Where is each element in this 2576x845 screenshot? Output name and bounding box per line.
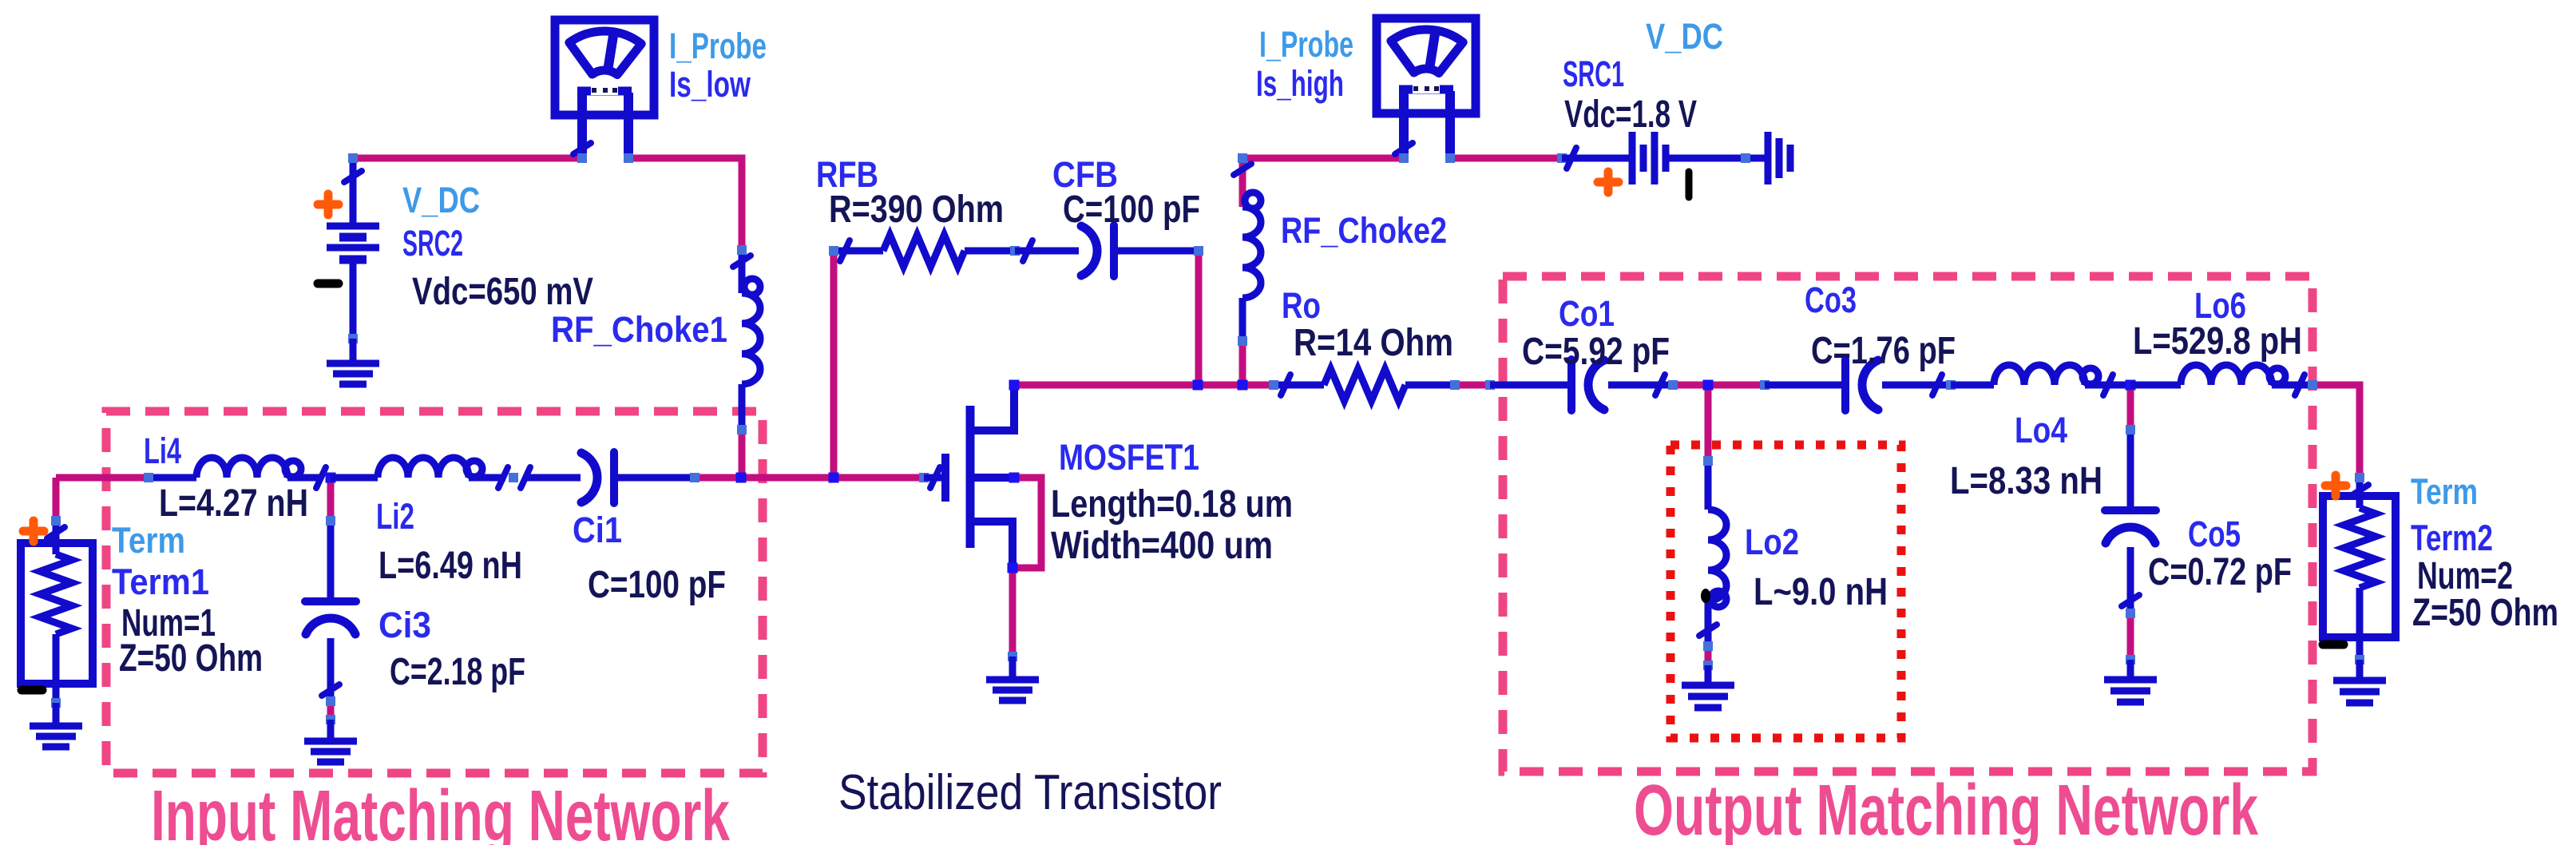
current probe meter Is_high [1377, 18, 1476, 113]
wire: input stub Term1 to Li4 [56, 474, 149, 482]
pin tick Li2 right a [498, 467, 508, 488]
svg-text:C=100 pF: C=100 pF [588, 564, 726, 606]
node at SRC2 bottom [348, 334, 358, 343]
svg-text:SRC1: SRC1 [1563, 54, 1624, 94]
node at Lo2 ground [1703, 661, 1713, 670]
pin tick RF_Choke2 top [1234, 164, 1251, 175]
wire: MOSFET source down to ground [1009, 568, 1017, 657]
wire: gate rail Ci1 to MOSFET gate [695, 474, 924, 482]
svg-text:C=100 pF: C=100 pF [1063, 188, 1200, 231]
pin tick RFB left [840, 240, 850, 261]
node at Ci3 ground [326, 715, 335, 724]
node at Lo2 bottom [1703, 641, 1713, 651]
I_Probe Is_low legs [577, 93, 587, 158]
svg-text:Stabilized Transistor: Stabilized Transistor [838, 765, 1222, 820]
wire: MOSFET bulk to source tie [1013, 478, 1041, 568]
node at RF_Choke2 corner [1238, 153, 1247, 163]
capacitor Co1 [1490, 382, 1571, 389]
pin tick Is_high left leg [1395, 143, 1413, 154]
ground below Ci3 [304, 738, 357, 745]
node at output box exit [2308, 380, 2317, 390]
node after Co1 [1668, 380, 1678, 390]
svg-text:Is_high: Is_high [1256, 63, 1344, 104]
svg-text:Term: Term [2411, 471, 2478, 512]
junction node RF_Choke1/gate rail [736, 473, 747, 483]
svg-text:V_DC: V_DC [402, 180, 480, 220]
wire: Li2 to Ci1 [525, 474, 581, 482]
ground below Lo2 [1682, 682, 1734, 689]
pin tick CFB left [1023, 240, 1032, 261]
junction node RF_Choke2/drain rail [1238, 380, 1248, 391]
wire: Ci3 bottom to ground node [327, 701, 335, 720]
dotted red box around Lo2 [1670, 445, 1901, 738]
node at Co5 ground [2126, 655, 2135, 664]
svg-text:Is_low: Is_low [669, 64, 751, 105]
wire: Lo2 bottom to ground node [1705, 646, 1712, 665]
node at Ci3 bottom [326, 696, 335, 706]
node at Co5 top [2126, 425, 2135, 434]
pin tick Li2 right b [521, 467, 530, 488]
svg-text:Vdc=650 mV: Vdc=650 mV [412, 271, 593, 313]
svg-text:Z=50 Ohm: Z=50 Ohm [2412, 592, 2558, 634]
wire: Li4/Li2 junction down to Ci3 [327, 478, 335, 521]
svg-text:R=390 Ohm: R=390 Ohm [829, 188, 1004, 231]
node at RF_Choke1 bottom [737, 425, 747, 434]
junction node RFB/gate rail [829, 473, 839, 483]
node before Co3 [1760, 380, 1770, 390]
node at Is_high right leg [1445, 153, 1455, 163]
capacitor Co3 [1765, 382, 1845, 389]
svg-text:Co1: Co1 [1559, 293, 1615, 334]
I_Probe Is_high legs [1399, 91, 1409, 158]
ground below Co5 [2104, 676, 2157, 684]
resistor RFB [834, 248, 883, 255]
svg-text:Ro: Ro [1282, 285, 1321, 326]
pin tick Term1 [47, 527, 65, 538]
minus sign Term2 [2323, 641, 2344, 649]
ground below Term2 [2333, 677, 2386, 684]
junction node Li4/Li2/Ci3 [326, 473, 336, 483]
wire: node down to Co5 [2127, 385, 2134, 430]
svg-text:L=6.49 nH: L=6.49 nH [378, 545, 522, 587]
node at RF_Choke2 bottom [1238, 336, 1247, 346]
port Term1 resistor box [21, 543, 93, 684]
node after Li2 [509, 473, 518, 482]
inductor Lo6 [2130, 382, 2181, 389]
black dot at Lo2 coil end [1701, 589, 1710, 603]
node at CFB right [1194, 246, 1203, 256]
wire: Co1 to Co3 segment [1673, 382, 1765, 389]
plus sign Term2 [2325, 482, 2346, 490]
svg-text:Z=50 Ohm: Z=50 Ohm [119, 637, 263, 680]
svg-text:Width=400 um: Width=400 um [1051, 525, 1273, 567]
node at SRC1 right [1741, 153, 1750, 163]
wire: Ci1 to gate rail node [614, 474, 695, 482]
junction node Co5 tap [2126, 380, 2136, 391]
wire: RFB node down to gate rail [830, 251, 838, 478]
svg-text:Lo2: Lo2 [1745, 522, 1799, 562]
wire: SRC2 bottom stub [350, 339, 357, 363]
svg-text:C=0.72 pF: C=0.72 pF [2148, 551, 2292, 593]
node at Term2 bottom [2355, 655, 2364, 664]
ground below MOSFET [986, 676, 1039, 684]
pin tick Ci3 bottom [322, 684, 339, 696]
wire: RF_Choke2 top stub [1239, 158, 1246, 207]
pin tick Lo6 right [2295, 375, 2305, 395]
node at probe left leg [577, 153, 587, 163]
svg-text:Term: Term [112, 520, 185, 561]
inductor RF_Choke1 [739, 250, 746, 293]
node at SRC1 left [1557, 153, 1567, 163]
wire: Lo6 to Term2 corner [2312, 385, 2360, 478]
wire: top bias rail from SRC2 to I_Probe left leg [353, 155, 582, 162]
transistor MOSFET1 [924, 474, 941, 482]
svg-text:L=529.8 pH: L=529.8 pH [2133, 320, 2302, 363]
svg-text:I_Probe: I_Probe [669, 26, 767, 66]
pin tick Co3 right [1932, 375, 1942, 395]
wire: CFB to output node [1114, 248, 1199, 255]
wire: Co5 bottom to ground node [2127, 613, 2134, 660]
wire: Term2 ground stub [2356, 660, 2364, 680]
node at RFB left [829, 246, 838, 256]
pin tick RF_Choke1 top [733, 256, 751, 267]
ground below SRC2 [327, 360, 379, 367]
capacitor Ci3 [327, 521, 335, 601]
inductor Lo4 [1951, 382, 1994, 389]
inductor Li2 [331, 474, 378, 482]
node at Is_high left leg [1399, 153, 1409, 163]
svg-text:L~9.0 nH: L~9.0 nH [1754, 571, 1888, 613]
battery V_DC SRC2 plates [327, 223, 379, 230]
node after Co3 [1946, 380, 1956, 390]
node at Ci3 top [326, 516, 335, 526]
wire: Is_high probe right leg to SRC1 battery [1450, 155, 1562, 162]
minus sign Term1 [22, 686, 42, 695]
pin tick Lo4 right [2103, 375, 2113, 395]
pin tick Co5 bottom [2122, 595, 2139, 606]
svg-text:Term1: Term1 [112, 561, 209, 602]
pin tick Co1 right [1655, 375, 1665, 395]
node at input stub [144, 473, 153, 482]
svg-text:C=5.92 pF: C=5.92 pF [1522, 331, 1670, 373]
minus bar SRC1 [1686, 172, 1693, 197]
plus sign SRC2 [318, 200, 339, 209]
svg-text:L=4.27 nH: L=4.27 nH [159, 482, 308, 525]
pin tick SRC2 top [344, 171, 362, 182]
capacitor Ci1 [610, 452, 618, 503]
wire: MOSFET ground stub [1009, 657, 1017, 680]
node after Ci1 [690, 473, 699, 482]
inductor Li4 [149, 474, 196, 482]
svg-text:Ci1: Ci1 [573, 510, 622, 550]
svg-text:RF_Choke1: RF_Choke1 [551, 309, 727, 350]
svg-text:L=8.33 nH: L=8.33 nH [1950, 460, 2102, 502]
wire: CFB output down to drain rail [1195, 251, 1203, 385]
svg-text:Ci3: Ci3 [378, 605, 431, 645]
svg-text:Li2: Li2 [376, 496, 414, 537]
junction node CFB/drain rail [1193, 380, 1203, 391]
wire: RFB node to CFB [1015, 248, 1079, 255]
resistor Ro [1274, 382, 1324, 389]
node at Term1 top [51, 516, 61, 526]
pin tick Ro left [1281, 375, 1290, 395]
plus sign SRC1 [1598, 178, 1619, 187]
svg-text:Li4: Li4 [144, 430, 181, 471]
svg-text:Lo4: Lo4 [2015, 410, 2067, 450]
wire: top bias rail from I_Probe right leg to RF_Choke1 corner [628, 158, 742, 250]
battery V_DC SRC1 plates [1562, 155, 1632, 162]
node at Ro left [1269, 380, 1278, 390]
wire: RF_Choke1 bottom to gate rail [739, 430, 746, 478]
dashed box: Input Matching Network region [106, 411, 763, 773]
pin tick Term2 top [2351, 485, 2368, 496]
svg-text:Input Matching Network: Input Matching Network [151, 776, 731, 845]
current probe meter Is_low [555, 20, 654, 115]
pin tick Lo2 bottom [1699, 625, 1717, 636]
node at probe right leg [624, 153, 633, 163]
pin tick SRC1 left [1567, 148, 1576, 169]
wire: Ro to output box [1455, 382, 1490, 389]
svg-text:Vdc=1.8 V: Vdc=1.8 V [1564, 93, 1697, 136]
svg-text:C=1.76 pF: C=1.76 pF [1811, 330, 1956, 372]
plus sign Term1 [23, 527, 44, 536]
wire: RF_Choke2 corner to Is_high probe left leg [1242, 155, 1404, 162]
node at SRC2 top [348, 153, 358, 163]
svg-text:C=2.18 pF: C=2.18 pF [390, 651, 525, 693]
node at RF_Choke1 top [737, 245, 747, 255]
inductor Lo2 [1705, 461, 1712, 510]
svg-text:I_Probe: I_Probe [1259, 24, 1353, 65]
wire: SRC2 top lead [350, 158, 357, 226]
node at Ro right [1450, 380, 1460, 390]
capacitor Co5 [2127, 430, 2134, 510]
ground below Term1 [30, 723, 82, 730]
svg-text:V_DC: V_DC [1646, 16, 1723, 57]
junction node MOSFET bulk [1009, 473, 1020, 483]
junction node Lo2 tap [1703, 380, 1714, 391]
inductor RF_Choke2 [1242, 207, 1261, 298]
node at Term2 top [2355, 473, 2364, 482]
wire: Co5 ground stub [2127, 660, 2134, 680]
pin tick I_Probe left leg [573, 143, 591, 154]
node between RFB and CFB [1010, 246, 1020, 256]
wire: Ci3 ground stub [327, 720, 335, 741]
ground right of SRC1 (horizontal) [1765, 132, 1772, 184]
svg-text:Output Matching Network: Output Matching Network [1634, 771, 2259, 845]
svg-text:RF_Choke2: RF_Choke2 [1281, 210, 1447, 251]
svg-text:SRC2: SRC2 [402, 223, 463, 264]
wire: Term1 top stub [53, 478, 60, 521]
svg-text:Co3: Co3 [1805, 280, 1857, 320]
node at output box entry [1485, 380, 1495, 390]
node before MOSFET gate [919, 473, 929, 482]
wire: node down to Lo2 [1705, 385, 1712, 461]
junction node MOSFET source [1008, 563, 1018, 573]
svg-text:MOSFET1: MOSFET1 [1059, 437, 1199, 478]
junction node MOSFET drain [1009, 380, 1020, 391]
wire: Term1 ground stub [53, 703, 60, 726]
svg-text:R=14 Ohm: R=14 Ohm [1294, 322, 1453, 364]
svg-text:Term2: Term2 [2411, 518, 2493, 558]
node at Term1 bottom [51, 698, 61, 708]
svg-text:Length=0.18 um: Length=0.18 um [1051, 483, 1293, 526]
capacitor CFB [1110, 225, 1118, 276]
node at MOSFET ground [1008, 652, 1017, 661]
svg-text:Co5: Co5 [2188, 514, 2241, 554]
dashed box: Output Matching Network region [1503, 276, 2312, 772]
pin tick Li4 right [316, 467, 326, 488]
node at Lo2 top [1703, 456, 1713, 466]
wire: Lo2 ground stub [1705, 665, 1712, 685]
node at Co5 bottom [2126, 609, 2135, 618]
port Term2 resistor box [2323, 496, 2396, 637]
pin tick MOSFET gate [930, 467, 940, 488]
minus sign SRC2 [318, 280, 339, 288]
wire: drain rail MOSFET to Ro [1014, 382, 1274, 389]
wire: RF_Choke2 bottom stub to drain rail [1239, 341, 1246, 385]
